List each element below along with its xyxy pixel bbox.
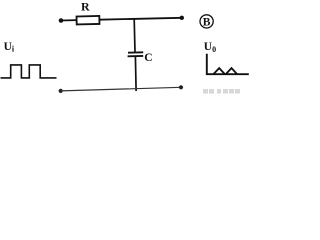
resistor R <box>77 16 100 25</box>
wire capacitor top lead <box>133 19 136 52</box>
svg-text:R: R <box>81 0 90 13</box>
wire top-left (terminal to resistor) <box>61 19 77 21</box>
node output bottom terminal <box>179 85 183 89</box>
capacitor C <box>128 52 144 56</box>
node output top terminal <box>180 16 184 20</box>
node input top terminal <box>59 18 64 23</box>
wire bottom (return wire) <box>61 87 181 91</box>
input square waveform <box>1 65 57 78</box>
output waveform ripple bump 2 <box>226 68 238 74</box>
circled letter B <box>200 15 213 29</box>
watermark <box>203 89 240 94</box>
output waveform axis <box>207 54 249 74</box>
wire top-right (resistor to output terminal) <box>99 18 181 20</box>
wire capacitor bottom lead <box>134 56 137 91</box>
node input bottom terminal <box>59 89 63 93</box>
svg-text:C: C <box>144 52 152 64</box>
svg-text:B: B <box>203 17 211 29</box>
output waveform ripple bump 1 <box>213 68 225 74</box>
